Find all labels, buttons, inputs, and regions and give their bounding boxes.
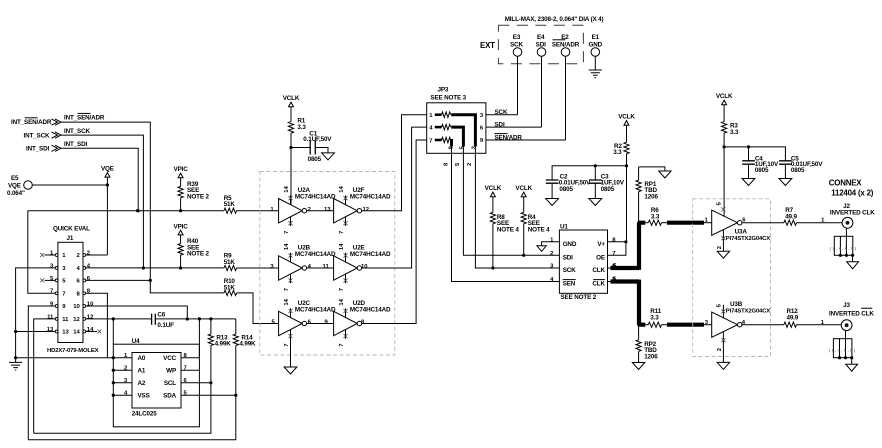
svg-text:0805: 0805 bbox=[791, 167, 805, 174]
capacitor C3 bbox=[589, 166, 625, 199]
svg-text:J1: J1 bbox=[67, 235, 74, 242]
svg-text:14: 14 bbox=[339, 243, 345, 250]
wire U2B out to U2E in bbox=[270, 264, 368, 270]
wire U2A out to U2F in bbox=[270, 207, 369, 213]
inverter U2C MC74HC14AD bbox=[279, 298, 336, 367]
svg-text:14: 14 bbox=[284, 243, 290, 250]
svg-text:VCLK: VCLK bbox=[283, 95, 300, 102]
wire J1 pin8 ground loop bbox=[14, 293, 113, 359]
svg-text:A0: A0 bbox=[138, 355, 146, 362]
JP3 right pin 6 SDI bbox=[480, 122, 542, 132]
svg-text:24LC025: 24LC025 bbox=[132, 410, 158, 417]
svg-text:VQE: VQE bbox=[101, 166, 114, 173]
svg-text:CONNEX: CONNEX bbox=[829, 179, 862, 188]
ground RP1 (triangle) bbox=[659, 171, 671, 178]
power VPIC (R39) bbox=[174, 166, 189, 186]
svg-text:0.1UF: 0.1UF bbox=[157, 322, 174, 329]
resistor RP2 bbox=[636, 325, 658, 363]
svg-text:SDI: SDI bbox=[563, 254, 573, 261]
connector E1 GND bbox=[589, 34, 603, 56]
svg-text:3.3: 3.3 bbox=[650, 314, 659, 321]
svg-text:INT_SCK: INT_SCK bbox=[64, 128, 90, 135]
wire J1 pin10 to C6 right / VCC bbox=[86, 306, 189, 321]
svg-text:CLK: CLK bbox=[592, 267, 605, 274]
svg-text:0805: 0805 bbox=[755, 167, 769, 174]
svg-text:14: 14 bbox=[284, 298, 290, 305]
svg-text:SCK: SCK bbox=[563, 267, 576, 274]
wire U4 WP loop to ground side bbox=[181, 369, 199, 371]
svg-text:0805: 0805 bbox=[559, 186, 573, 193]
connector J1 QUICK EVAL HD2X7-079-MOLEX bbox=[47, 226, 99, 354]
inverter U2D MC74HC14AD bbox=[334, 298, 391, 346]
wire J1 pin9 to SDA loop bbox=[28, 306, 55, 440]
svg-text:WP: WP bbox=[166, 368, 176, 375]
svg-text:10: 10 bbox=[361, 264, 368, 270]
resistor R5 bbox=[224, 195, 237, 213]
resistor R8 bbox=[490, 212, 519, 269]
wire SEN net to R10 bbox=[150, 280, 224, 293]
svg-text:4.99K: 4.99K bbox=[215, 341, 232, 348]
svg-text:E1: E1 bbox=[592, 34, 600, 41]
wire J1 pin12 / C6 row bbox=[86, 317, 152, 320]
wire VCLK rail down to V+ bbox=[626, 166, 628, 242]
power VCLK (R1) bbox=[283, 95, 300, 121]
ground U2C (triangle) bbox=[284, 367, 297, 374]
svg-text:VCLK: VCLK bbox=[618, 114, 635, 121]
svg-text:INT_SCK: INT_SCK bbox=[24, 132, 50, 139]
ground E1 (earth bars) bbox=[589, 70, 602, 78]
wire E3 to JP3 SCK bbox=[517, 56, 519, 114]
wire U2D out to JP3 pin7 bbox=[362, 140, 427, 324]
svg-text:MC74HC14AD: MC74HC14AD bbox=[295, 194, 336, 201]
svg-text:E3: E3 bbox=[513, 34, 521, 41]
svg-text:VPIC: VPIC bbox=[174, 223, 189, 230]
wire E4 to JP3 SDI bbox=[541, 56, 543, 127]
wire U1 V+ / OE tie bbox=[608, 240, 628, 255]
resistor R7 bbox=[784, 207, 798, 225]
svg-text:11: 11 bbox=[62, 317, 69, 323]
svg-text:3.3: 3.3 bbox=[613, 149, 622, 156]
inverter U2B MC74HC14AD bbox=[279, 243, 336, 291]
svg-text:J3: J3 bbox=[843, 302, 850, 309]
connector E2 SEN/ADR bbox=[552, 34, 580, 56]
svg-text:E5: E5 bbox=[11, 175, 19, 182]
resistor R40 bbox=[178, 238, 209, 270]
svg-text:1206: 1206 bbox=[644, 194, 658, 201]
wire R7 to J2 bbox=[797, 218, 843, 224]
dashed box U2 group bbox=[260, 172, 395, 356]
svg-text:10: 10 bbox=[73, 304, 80, 310]
svg-text:U1: U1 bbox=[560, 224, 568, 231]
wire U2E out to JP3 pin4 bbox=[362, 127, 427, 268]
svg-text:VCLK: VCLK bbox=[716, 93, 733, 100]
svg-text:12: 12 bbox=[363, 207, 370, 213]
svg-text:INVERTED CLK: INVERTED CLK bbox=[830, 209, 875, 216]
wire U4 A1 stub bbox=[112, 369, 132, 372]
wire JP3 pin5 to U1 SDI bbox=[455, 153, 559, 255]
wire JP3 pin8 to U1 SEN bbox=[444, 153, 560, 281]
svg-text:INT_SDI: INT_SDI bbox=[26, 146, 49, 153]
capacitor C1 bbox=[291, 131, 332, 163]
svg-text:VCLK: VCLK bbox=[515, 185, 532, 192]
ground C1 (triangle) bbox=[322, 153, 335, 160]
capacitor C4 bbox=[742, 147, 779, 179]
svg-text:A2: A2 bbox=[138, 380, 146, 387]
svg-text:3.3: 3.3 bbox=[297, 124, 306, 131]
connector J2 INVERTED CLK coax bbox=[830, 203, 875, 216]
wire U1 CLK pin5 thick net bbox=[608, 276, 646, 326]
node INT_SCK input port bbox=[24, 132, 62, 139]
svg-text:0805: 0805 bbox=[308, 156, 322, 163]
wire VCLK to U2A pin14 bbox=[290, 148, 292, 205]
resistor R14 bbox=[233, 319, 256, 397]
svg-text:VCC: VCC bbox=[163, 355, 176, 362]
wire U3B out to R12 bbox=[742, 320, 784, 326]
wire VCLK rail to C4/C5 bbox=[724, 145, 785, 161]
svg-text:U3A: U3A bbox=[735, 228, 748, 235]
ground C2 (triangle) bbox=[546, 199, 559, 206]
resistor R10 bbox=[224, 278, 237, 296]
svg-text:3.3: 3.3 bbox=[651, 213, 660, 220]
svg-text:11: 11 bbox=[323, 264, 330, 270]
svg-text:VSS: VSS bbox=[138, 393, 150, 400]
inverter U3B PI74STX2G04CX bbox=[712, 301, 771, 362]
svg-text:MILL-MAX, 2308-2, 0.064" DIA (: MILL-MAX, 2308-2, 0.064" DIA (X 4) bbox=[505, 16, 604, 23]
svg-text:51K: 51K bbox=[224, 284, 236, 291]
connector E3 SCK bbox=[510, 34, 523, 56]
J1 pin1 no-connect bbox=[40, 253, 55, 257]
wire JP3 pin2 to U1 SCK bbox=[467, 153, 560, 268]
svg-text:JP3: JP3 bbox=[438, 86, 449, 93]
wire RP1 top to ground bbox=[639, 167, 665, 171]
svg-text:112404 (x 2): 112404 (x 2) bbox=[831, 189, 873, 198]
svg-text:PI74STX2G04CX: PI74STX2G04CX bbox=[726, 308, 770, 314]
svg-text:INVERTED CLK: INVERTED CLK bbox=[829, 310, 874, 317]
svg-text:CLK: CLK bbox=[592, 281, 605, 288]
svg-text:MC74HC14AD: MC74HC14AD bbox=[350, 306, 391, 313]
svg-text:14: 14 bbox=[284, 186, 290, 193]
wire E1 to ground bbox=[594, 56, 596, 70]
capacitor C6 bbox=[152, 311, 188, 329]
svg-text:SEE NOTE 2: SEE NOTE 2 bbox=[561, 294, 597, 301]
svg-text:PI74STX2G04CX: PI74STX2G04CX bbox=[726, 236, 770, 242]
ground U3A (triangle) bbox=[717, 251, 729, 258]
wire R12 to J3 bbox=[797, 320, 842, 326]
ground J1 (earth bars) bbox=[9, 362, 22, 370]
wire INT_SDI to SDI net bbox=[61, 141, 140, 212]
inverter U3A PI74STX2G04CX bbox=[712, 201, 771, 251]
resistor R11 bbox=[645, 308, 661, 327]
wire J1 pin11 to SCL loop bbox=[34, 319, 56, 433]
J1 pin14 no-connect bbox=[86, 330, 102, 334]
svg-text:VCLK: VCLK bbox=[485, 185, 502, 192]
IC U1 bbox=[550, 224, 616, 301]
power VCLK (R8) bbox=[485, 185, 502, 212]
wire J1 pin3 to ground bbox=[16, 268, 56, 363]
svg-text:NOTE 4: NOTE 4 bbox=[528, 226, 550, 233]
dashed box U3 group bbox=[693, 199, 771, 357]
wire U4 VSS stub bbox=[112, 394, 132, 397]
dashed box EXT pads bbox=[498, 25, 583, 64]
svg-text:NOTE 2: NOTE 2 bbox=[187, 251, 209, 258]
JP3 right pin 9 SEN/ADR bbox=[480, 134, 566, 145]
resistor R13 bbox=[208, 317, 231, 384]
svg-text:QUICK EVAL: QUICK EVAL bbox=[53, 226, 90, 233]
IC U4 24LC025 outer box bbox=[113, 338, 199, 427]
svg-text:MC74HC14AD: MC74HC14AD bbox=[295, 251, 336, 258]
svg-text:12: 12 bbox=[73, 317, 80, 323]
svg-text:U4: U4 bbox=[132, 338, 140, 345]
wire J1 pin6 / SEN row bbox=[86, 279, 152, 282]
wire J1 pin13 to ground rail bbox=[14, 330, 55, 333]
svg-text:VPIC: VPIC bbox=[174, 166, 189, 173]
svg-text:4.99K: 4.99K bbox=[239, 341, 256, 348]
svg-text:INT_SDI: INT_SDI bbox=[64, 141, 87, 148]
power VPIC (R40) bbox=[174, 223, 189, 243]
IC U4 24LC025 bbox=[124, 353, 188, 409]
svg-text:(2,4,6,8): (2,4,6,8) bbox=[829, 349, 855, 353]
wire SDI net (row to U2A) bbox=[28, 209, 279, 212]
svg-text:1206: 1206 bbox=[644, 354, 658, 361]
node INT_SEN/ADR input port bbox=[11, 118, 61, 126]
JP3 right pin 3 SCK bbox=[480, 109, 518, 119]
power VCLK (R2) bbox=[618, 114, 635, 143]
svg-text:SEN/ADR: SEN/ADR bbox=[495, 135, 523, 142]
svg-text:V+: V+ bbox=[597, 241, 605, 248]
wire E5 to VQE rail bbox=[32, 183, 109, 186]
svg-text:14: 14 bbox=[339, 186, 345, 193]
wire U4 VCC riser to C6 net bbox=[181, 317, 201, 357]
resistor R2 bbox=[613, 142, 629, 167]
svg-text:MC74HC14AD: MC74HC14AD bbox=[350, 194, 391, 201]
wire U4 SCL loop to J1 pin11 bbox=[34, 383, 211, 434]
jumper block JP3 bbox=[427, 86, 486, 153]
svg-text:3.3: 3.3 bbox=[730, 129, 739, 136]
svg-text:U3B: U3B bbox=[730, 301, 743, 308]
wire J1 pin2 to VQE bbox=[86, 254, 108, 256]
power VCLK (R4) bbox=[515, 185, 532, 212]
wire U3A out to R7 bbox=[742, 218, 784, 224]
wire VCLK down to U3A pin5 bbox=[723, 147, 725, 217]
ground C4 (triangle) bbox=[742, 179, 755, 186]
resistor R1 bbox=[288, 118, 306, 150]
wire INT_SCK to J1 pin4 / R9 net bbox=[61, 128, 145, 270]
svg-text:SEE NOTE 3: SEE NOTE 3 bbox=[430, 94, 466, 101]
J1 pin5 no-connect bbox=[40, 278, 55, 282]
wire VCLK rail to C2/C3 bbox=[552, 164, 626, 180]
svg-text:VQE: VQE bbox=[8, 183, 21, 190]
resistor R3 bbox=[722, 122, 739, 149]
wire U1 CLK pin6 thick net bbox=[608, 221, 646, 270]
svg-text:SDI: SDI bbox=[495, 122, 505, 129]
svg-text:13: 13 bbox=[62, 330, 69, 336]
svg-text:49.9: 49.9 bbox=[785, 214, 797, 221]
svg-text:14: 14 bbox=[73, 330, 80, 336]
svg-text:GND: GND bbox=[563, 241, 577, 248]
power VCLK (R3) bbox=[716, 93, 733, 121]
svg-text:0805: 0805 bbox=[601, 186, 615, 193]
svg-text:C6: C6 bbox=[157, 311, 165, 318]
capacitor C5 bbox=[779, 155, 823, 178]
svg-text:SDA: SDA bbox=[163, 393, 176, 400]
connector J3 INVERTED CLK coax bbox=[829, 302, 874, 317]
wire R11 to U3B input thick bbox=[662, 320, 712, 326]
wire U2C out to U2D in bbox=[272, 320, 366, 326]
wire U4 A2 stub bbox=[112, 381, 132, 384]
svg-text:SCL: SCL bbox=[164, 380, 176, 387]
svg-text:OE: OE bbox=[596, 254, 605, 261]
svg-text:49.9: 49.9 bbox=[787, 315, 799, 322]
resistor RP1 bbox=[636, 167, 658, 223]
capacitor C2 bbox=[546, 174, 591, 199]
svg-text:NOTE 2: NOTE 2 bbox=[187, 193, 209, 200]
resistor R12 bbox=[784, 308, 799, 327]
JP3 row 1 fuse-wire and trace to pin2 col bbox=[429, 112, 477, 153]
wire E2 to JP3 SEN/ADR bbox=[565, 56, 567, 140]
svg-text:0.1UF,50V: 0.1UF,50V bbox=[303, 136, 332, 143]
power VQE bbox=[101, 166, 114, 256]
wire INT_SEN/ADR to J1 pin6 / R10 net bbox=[61, 113, 150, 280]
svg-text:MC74HC14AD: MC74HC14AD bbox=[295, 306, 336, 313]
svg-text:NOTE 4: NOTE 4 bbox=[497, 226, 519, 233]
svg-text:SCK: SCK bbox=[495, 109, 508, 116]
svg-text:A1: A1 bbox=[138, 368, 146, 375]
svg-text:E4: E4 bbox=[537, 34, 545, 41]
svg-text:EXT: EXT bbox=[480, 41, 495, 50]
wire C6 row to R13/R14 tops bbox=[187, 318, 236, 320]
JP3 row 7 fuse-wire and trace to pin8 col bbox=[429, 137, 454, 153]
svg-text:(2,4,6,8): (2,4,6,8) bbox=[830, 246, 856, 250]
ground C3 (triangle) bbox=[589, 199, 602, 206]
wire R6 to U3A input thick bbox=[662, 218, 712, 224]
svg-text:MC74HC14AD: MC74HC14AD bbox=[350, 251, 391, 258]
svg-text:HD2X7-079-MOLEX: HD2X7-079-MOLEX bbox=[47, 348, 99, 354]
resistor R39 bbox=[178, 181, 209, 212]
wire U2F out to JP3 pin1 bbox=[362, 115, 427, 211]
ground U3B (triangle) bbox=[717, 362, 729, 369]
resistor R4 bbox=[521, 212, 550, 257]
svg-text:14: 14 bbox=[339, 298, 345, 305]
wire U4 A0 stub bbox=[112, 356, 132, 359]
wire J1 pin7 from SDI net bbox=[28, 211, 55, 294]
wire U1 GND pin to ground bbox=[542, 242, 560, 246]
wire U4 ground vertical from J1 pin12 bbox=[112, 319, 114, 344]
JP3 row 4 fuse-wire and trace to pin5 col bbox=[429, 124, 465, 153]
ground RP2 (triangle) bbox=[632, 363, 644, 370]
inverter U2F MC74HC14AD bbox=[334, 186, 391, 234]
inverter U2E MC74HC14AD bbox=[334, 243, 391, 291]
resistor R6 bbox=[645, 207, 661, 225]
svg-text:51K: 51K bbox=[224, 201, 236, 208]
connector E5 test point bbox=[7, 175, 32, 197]
svg-text:INT_SEN/ADR: INT_SEN/ADR bbox=[11, 119, 52, 126]
svg-text:51K: 51K bbox=[224, 259, 236, 266]
svg-text:SEN: SEN bbox=[563, 281, 576, 288]
svg-text:13: 13 bbox=[324, 207, 331, 213]
svg-text:INT_SEN/ADR: INT_SEN/ADR bbox=[64, 115, 105, 122]
ground U1 (triangle) bbox=[537, 246, 546, 252]
wire U4 SDA loop to J1 pin9 bbox=[28, 395, 236, 440]
wire R10 to U2C input bbox=[237, 293, 279, 324]
inverter U2A MC74HC14AD bbox=[279, 186, 336, 234]
connector E4 SDI bbox=[536, 34, 546, 56]
resistor R9 bbox=[224, 253, 279, 271]
wire J1 pin4 / SCK row bbox=[86, 267, 224, 269]
ground C5 (triangle) bbox=[779, 179, 792, 186]
label CONNEX bbox=[829, 179, 874, 198]
svg-text:0.064": 0.064" bbox=[7, 190, 25, 197]
node INT_SDI input port bbox=[26, 145, 61, 152]
